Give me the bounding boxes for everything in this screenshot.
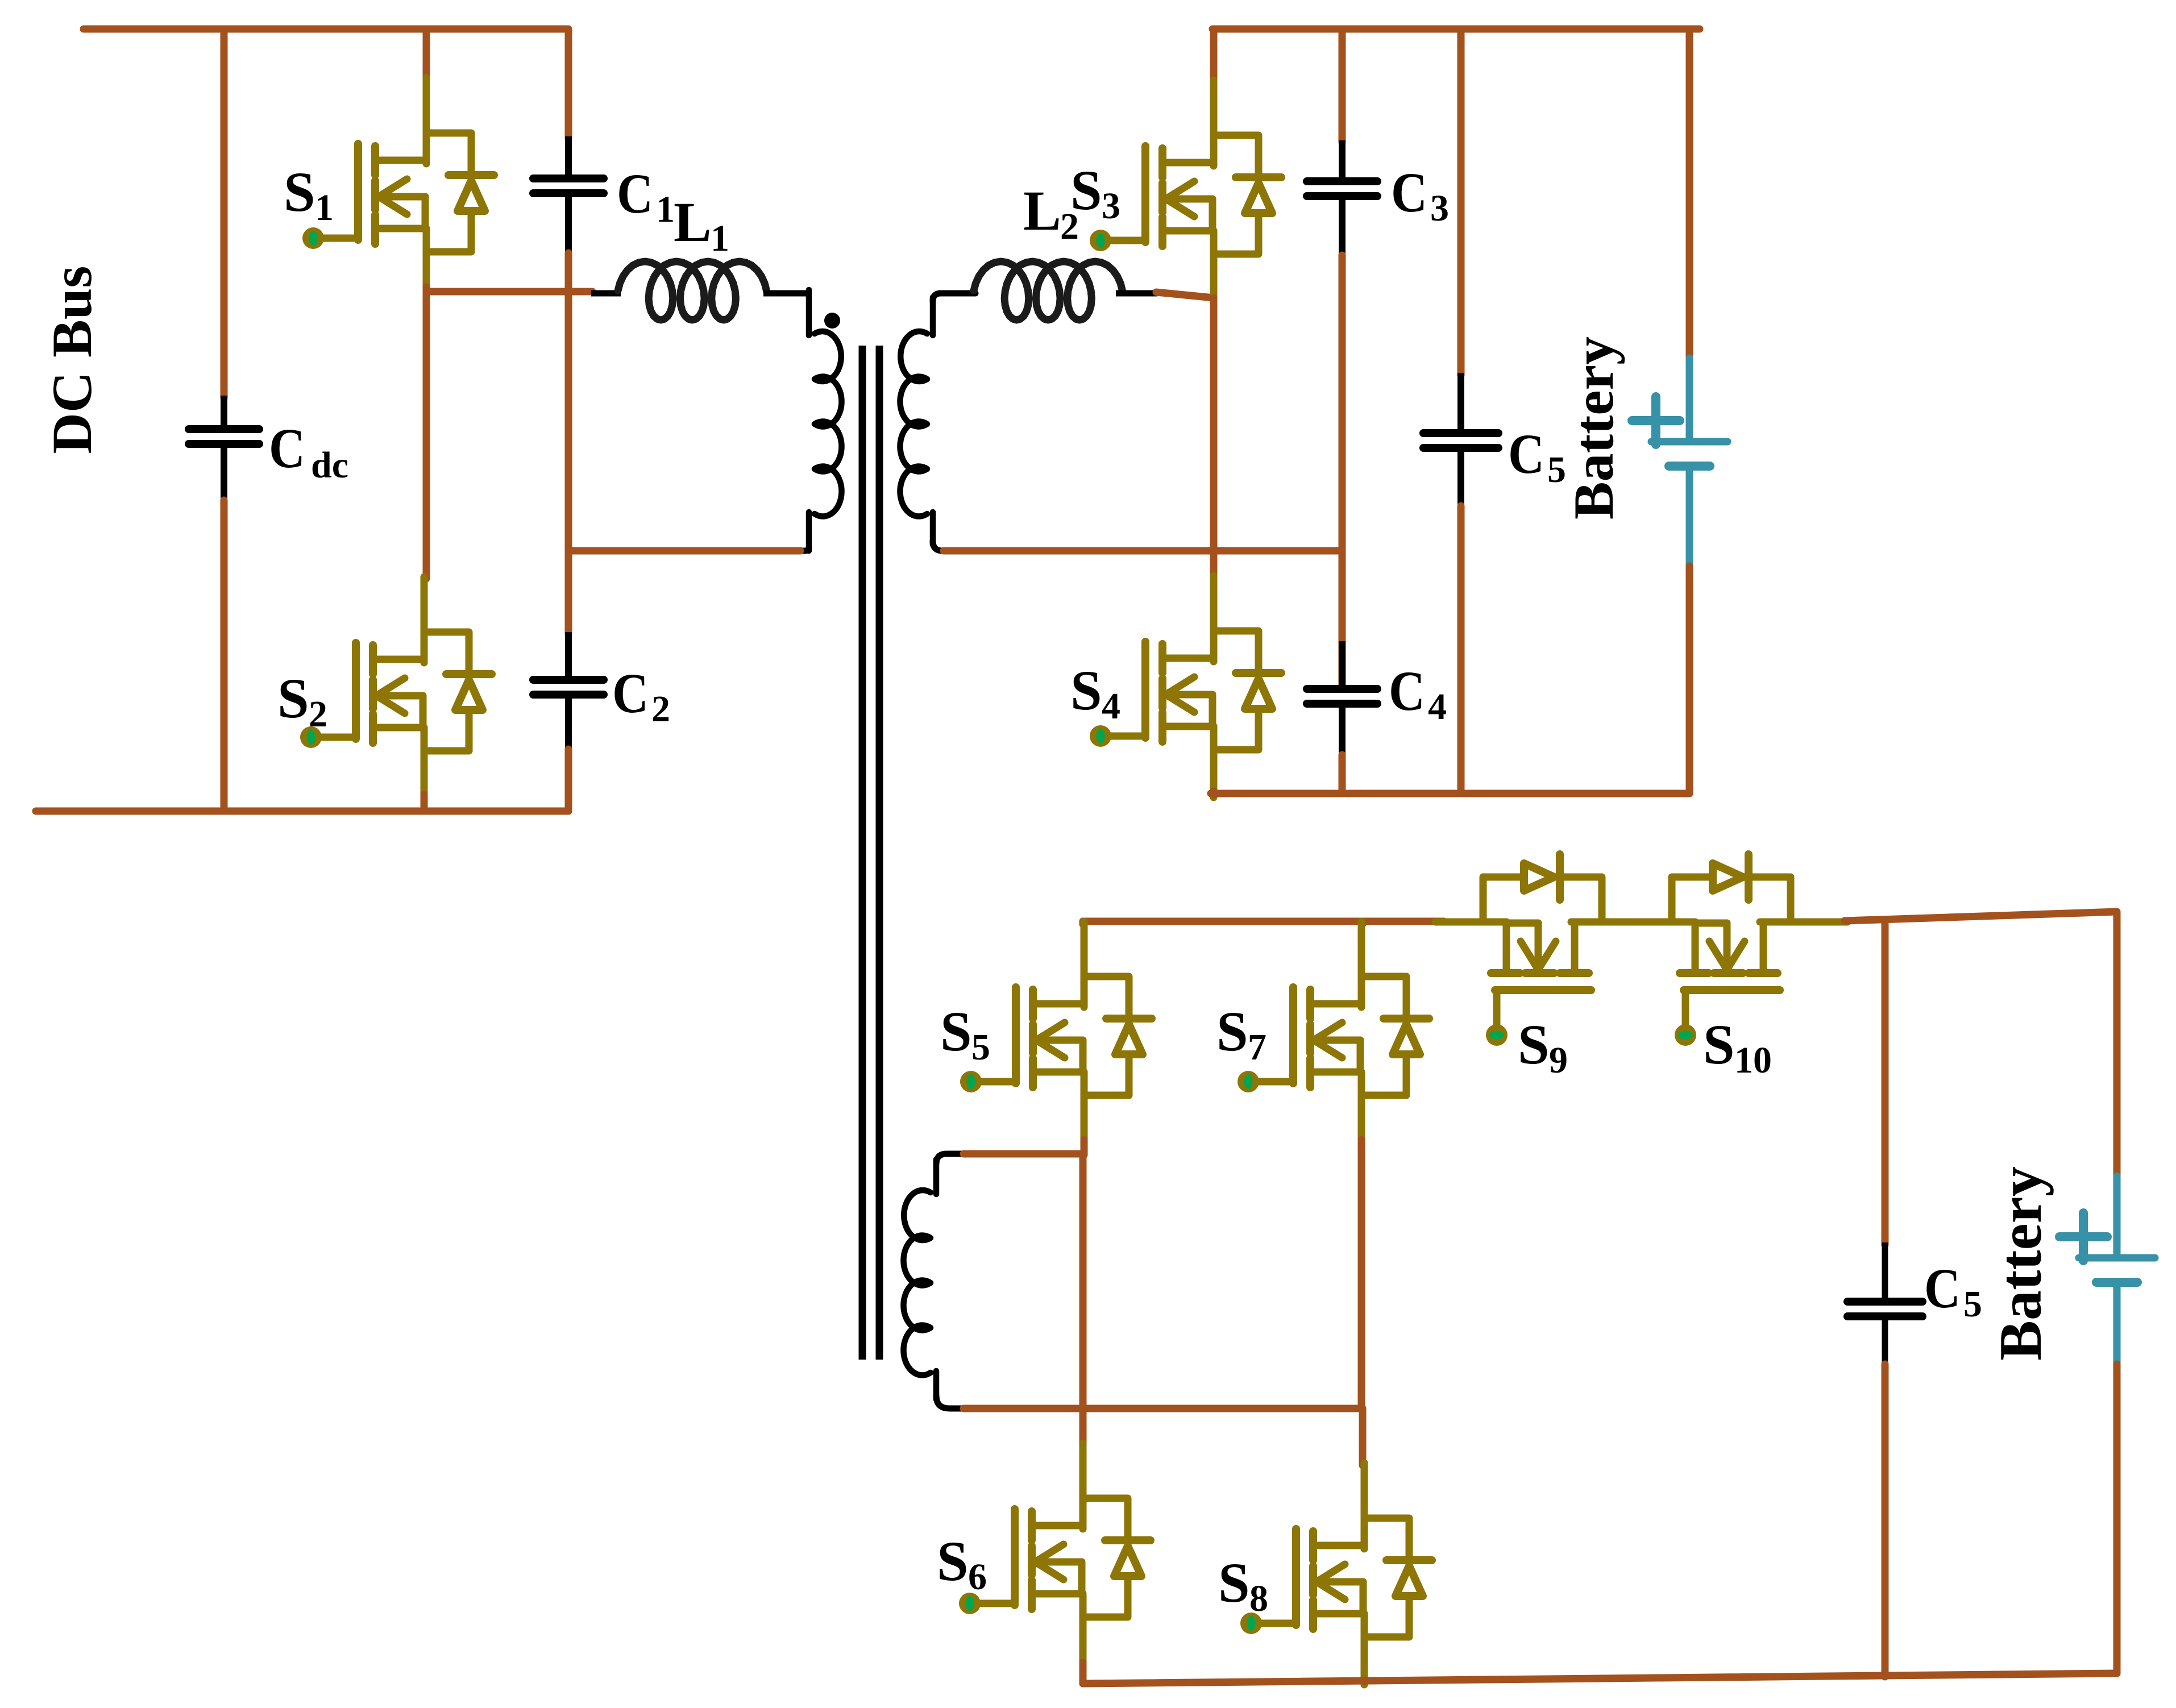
svg-text:5: 5: [971, 1027, 990, 1068]
wire S7/S8 column (node to S8 drain): [1359, 1408, 1367, 1465]
inductor L2: [974, 261, 1123, 320]
transistor S7 (MOSFET with body diode): [1238, 921, 1429, 1143]
svg-text:3: 3: [1430, 188, 1449, 229]
svg-text:S: S: [1703, 1013, 1735, 1076]
transistor S1 (MOSFET with body diode): [302, 78, 494, 300]
capacitor C1: [565, 136, 572, 177]
svg-text:dc: dc: [311, 444, 348, 486]
svg-text:L: L: [1023, 179, 1061, 242]
wire bottom bus (bottom section): [1083, 1673, 2117, 1684]
wire L2 to S3/S4 mid node (black lead): [1116, 290, 1157, 297]
wire battery (upper) positive lead from top bus: [1686, 29, 1693, 359]
wire C5 (upper) bottom to bottom bus: [1457, 506, 1465, 793]
wire S1 drain from top bus: [423, 29, 430, 80]
capacitor C2: [565, 632, 572, 679]
svg-text:DC Bus: DC Bus: [40, 266, 103, 454]
capacitor Cdc: [221, 396, 227, 427]
wire bus S10 to battery corner (olive then brown): [1842, 919, 1847, 926]
wire tertiary top link to S5/S6 column: [964, 1150, 1083, 1158]
transformer secondary winding: [900, 297, 933, 545]
wire mid node horizontal to L1: [426, 288, 592, 296]
svg-text:10: 10: [1734, 1040, 1772, 1081]
transistor S6 (MOSFET with body diode): [959, 1443, 1151, 1665]
wire S7 drain from bus: [1359, 921, 1367, 924]
wire S7 source to winding-bottom node: [1358, 1140, 1365, 1410]
svg-text:L: L: [674, 190, 712, 254]
svg-text:1: 1: [315, 187, 334, 228]
battery lower: [2059, 1176, 2155, 1366]
wire tertiary bottom link to S7/S8 column: [964, 1405, 1363, 1412]
wire tertiary bottom corner link (black): [936, 1395, 966, 1408]
svg-text:1: 1: [656, 189, 675, 230]
transistor S2 (MOSFET with body diode): [300, 577, 492, 799]
svg-text:2: 2: [309, 693, 327, 735]
transistor S8 (MOSFET with body diode): [1240, 1463, 1432, 1685]
capacitor C4: [1339, 641, 1346, 688]
svg-text:Battery: Battery: [1987, 1166, 2054, 1360]
svg-text:S: S: [284, 160, 315, 223]
svg-text:6: 6: [968, 1556, 987, 1598]
wire top bus (right section): [1212, 26, 1700, 33]
polarity dot (primary): [824, 313, 840, 329]
wire C5 (upper) column from top bus: [1457, 29, 1465, 375]
svg-text:Battery: Battery: [1562, 336, 1625, 520]
capacitor C5 (upper): [1457, 373, 1464, 432]
wire mid node: S1 source to S2 drain: [423, 287, 430, 579]
wire S5 source to winding-top node: [1081, 1140, 1088, 1155]
svg-text:C: C: [1924, 1257, 1961, 1320]
capacitor C5 (lower): [1882, 1242, 1888, 1300]
svg-text:S: S: [1070, 659, 1102, 722]
svg-text:S: S: [1218, 1551, 1250, 1614]
wire L1 to primary winding (black lead): [763, 290, 809, 297]
svg-text:S: S: [1518, 1013, 1550, 1076]
svg-text:3: 3: [1102, 185, 1120, 227]
battery upper: [1632, 358, 1727, 568]
svg-text:C: C: [1389, 659, 1425, 722]
wire C3-C4 midpoint column: [1339, 255, 1346, 689]
transformer core: [862, 346, 879, 1360]
capacitor C5u: [1423, 433, 1498, 448]
wire bus segment S9-S10 (olive): [1630, 919, 1651, 926]
svg-text:7: 7: [1248, 1027, 1266, 1068]
wire bottom bus (right section): [1211, 790, 1689, 797]
wire C1-C2 midpoint column: [565, 253, 572, 634]
wire S5 drain from bus corner: [1079, 921, 1087, 924]
wire primary bottom return to C1/C2 midpoint: [568, 547, 800, 555]
svg-text:S: S: [1070, 159, 1102, 222]
wire primary bottom corner: [799, 547, 809, 551]
svg-text:S: S: [937, 1530, 969, 1593]
wire tertiary top corner link (black): [936, 1154, 966, 1164]
svg-text:S: S: [277, 667, 309, 730]
svg-text:2: 2: [651, 688, 670, 730]
wire Cdc top lead from bus: [221, 29, 228, 398]
svg-text:C: C: [1508, 422, 1544, 485]
wire S3 drain from top bus: [1210, 29, 1218, 82]
svg-text:S: S: [1216, 1000, 1248, 1063]
svg-text:5: 5: [1963, 1283, 1982, 1325]
capacitor C2: [533, 680, 604, 695]
wire secondary bottom corner: [933, 541, 948, 551]
wire C3 top lead from bus: [1339, 29, 1346, 142]
wire S2 source to bottom bus: [421, 795, 428, 809]
wire battery (upper) negative lead to bottom bus: [1686, 566, 1693, 793]
inductor L1: [618, 261, 767, 320]
svg-text:C: C: [269, 417, 305, 480]
transistor S9 (MOSFET with body diode): [1435, 854, 1657, 1046]
wire secondary top corner to L2 (black lead): [933, 293, 975, 301]
wire S8 source to bottom bus: [1361, 1680, 1368, 1681]
wire Cdc bottom lead to bottom bus: [221, 500, 228, 811]
svg-text:1: 1: [711, 218, 729, 259]
capacitor Cdc: [189, 429, 259, 444]
capacitor C4: [1307, 689, 1377, 704]
transformer tertiary winding: [903, 1160, 936, 1399]
transformer primary winding: [809, 290, 842, 551]
wire battery (lower) negative lead to bottom bus corner: [2113, 1364, 2121, 1673]
wire S4 source to bottom bus: [1210, 791, 1218, 795]
wire C2 bottom to bottom bus corner: [565, 749, 572, 811]
transistor S10 (MOSFET with body diode): [1624, 854, 1846, 1046]
wire L2 sloped link to right bridge mid node: [1156, 292, 1214, 298]
svg-text:4: 4: [1102, 685, 1120, 727]
wire C5 (lower) bottom to bottom bus: [1882, 1364, 1889, 1677]
wire bottom DC bus (left section): [36, 808, 568, 815]
wire top bus (bottom section, brown part): [1083, 918, 1444, 925]
capacitor C5l: [1847, 1302, 1922, 1316]
wire S6 source to bottom bus corner: [1079, 1663, 1087, 1684]
wire top DC bus (left section): [84, 29, 568, 139]
transistor S3 (MOSFET with body diode): [1090, 80, 1281, 302]
wire S3/S4 mid node column: [1210, 298, 1218, 577]
svg-text:8: 8: [1249, 1578, 1268, 1619]
wire S5/S6 column (node to S6 drain): [1079, 1154, 1087, 1445]
svg-text:S: S: [940, 1000, 972, 1063]
transistor S4 (MOSFET with body diode): [1090, 576, 1281, 797]
wire C5 (lower) column from top link: [1882, 920, 1889, 1245]
svg-text:C: C: [612, 662, 649, 725]
transistor S5 (MOSFET with body diode): [960, 921, 1152, 1143]
svg-text:C: C: [617, 162, 653, 225]
svg-text:4: 4: [1428, 686, 1447, 728]
wire top-right link to battery (bottom section): [1845, 912, 2117, 1178]
wire node between mid node and L1 (black lead): [591, 290, 621, 297]
capacitor C3: [1307, 181, 1377, 196]
capacitor C1: [533, 178, 604, 193]
svg-text:9: 9: [1549, 1040, 1568, 1081]
wire C4 bottom to bottom bus: [1339, 755, 1346, 793]
capacitor C3: [1339, 140, 1346, 180]
svg-text:C: C: [1391, 161, 1427, 224]
wire secondary bottom return to C3/C4 midpoint: [944, 547, 1342, 555]
